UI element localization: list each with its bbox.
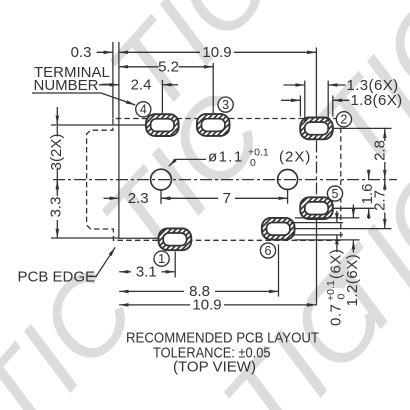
ext pad row A left <box>51 124 146 126</box>
svg-text:3.3: 3.3 <box>47 197 64 218</box>
svg-text:3: 3 <box>222 98 229 112</box>
drill hole left (2X) <box>151 169 172 190</box>
pad terminal 6 <box>262 218 295 240</box>
ext pad2 hole right <box>327 81 329 123</box>
svg-text:0.7: 0.7 <box>327 304 344 326</box>
pcb edge vertical <box>118 42 120 238</box>
dimension 7 <box>161 197 218 199</box>
ext pad2 hole left <box>304 81 306 123</box>
svg-text:NUMBER: NUMBER <box>34 77 99 94</box>
label diameter 1.1 (2X) leader <box>169 159 206 166</box>
dimension 2.7 <box>384 180 386 190</box>
svg-text:2.3: 2.3 <box>128 190 149 207</box>
ext pad2 outer right <box>332 96 334 117</box>
svg-text:PCB EDGE: PCB EDGE <box>18 269 96 286</box>
pcb edge bottom <box>119 237 159 239</box>
pad terminal 5 <box>300 197 333 219</box>
balloon terminal 6 <box>260 243 275 258</box>
ext hole1 down <box>160 191 162 204</box>
svg-text:2.4: 2.4 <box>131 77 152 94</box>
dimension 0.7 (6X) <box>336 211 338 222</box>
ext pad6 bottom right <box>295 239 360 241</box>
dimension 1.6 <box>368 170 370 180</box>
ext hole2 down <box>287 190 289 204</box>
ext pad4 center up <box>161 80 163 113</box>
dimension 3.1 <box>119 271 131 273</box>
leader terminal number <box>32 93 135 105</box>
dimension 0.3 <box>97 51 113 53</box>
dimension 10.9 top <box>119 51 200 53</box>
ext pad5 center right <box>334 207 375 209</box>
ext pad2 center right <box>334 127 392 129</box>
dimension 2.3 <box>104 197 119 199</box>
horizontal center line <box>53 179 397 181</box>
ext pad1 center down <box>174 252 176 278</box>
dimension 1.3 (6X) <box>284 84 305 86</box>
svg-text:0.3: 0.3 <box>71 44 92 61</box>
svg-text:1: 1 <box>158 252 165 266</box>
component outline (dashed) <box>87 119 341 241</box>
svg-text:(6X): (6X) <box>327 249 344 279</box>
dimension 2.4 <box>99 84 119 86</box>
dimension 8.8 <box>119 290 184 292</box>
svg-text:1.2(6X): 1.2(6X) <box>344 254 361 307</box>
svg-text:3(2X): 3(2X) <box>48 134 65 171</box>
dimension 3 (2X) <box>56 107 58 125</box>
ext pad6 hole bottom <box>291 234 344 236</box>
svg-text:ø1.1: ø1.1 <box>208 149 244 166</box>
svg-text:(2X): (2X) <box>279 149 311 166</box>
ext pad6 center down <box>278 244 280 296</box>
svg-text:10.9: 10.9 <box>202 44 231 61</box>
dimension 1.8 (6X) <box>281 99 300 101</box>
svg-text:6: 6 <box>265 244 272 258</box>
balloon terminal 3 <box>218 97 233 112</box>
ext pad6 center right <box>295 228 392 230</box>
ext pad6 hole top <box>291 222 344 224</box>
balloon terminal 5 <box>327 186 342 201</box>
ext pad5 center down <box>316 219 318 305</box>
svg-text:3.1: 3.1 <box>136 264 157 281</box>
dimension 5.2 <box>119 66 159 68</box>
balloon terminal 2 <box>336 112 351 127</box>
svg-text:4: 4 <box>140 103 147 117</box>
svg-text:7: 7 <box>223 190 231 207</box>
dimension 2.8 <box>384 129 386 141</box>
svg-text:0: 0 <box>250 157 256 169</box>
balloon terminal 1 <box>154 251 169 266</box>
balloon terminal 4 <box>136 102 151 117</box>
svg-text:5.2: 5.2 <box>158 59 179 76</box>
ext pad3 center up <box>212 63 214 113</box>
svg-text:2: 2 <box>340 113 347 127</box>
ext pad6 top right <box>295 217 360 219</box>
ext pad2 outer left <box>299 96 301 117</box>
dimension 3.3 <box>56 180 58 191</box>
svg-text:5: 5 <box>332 187 339 201</box>
pad terminal 1 <box>159 228 192 250</box>
ext pad2 center up <box>315 48 317 117</box>
dimension 1.2 (6X) <box>352 205 354 218</box>
drill hole right (2X) <box>278 170 298 190</box>
vertical center line pads 2-5 <box>316 141 318 198</box>
dimension 10.9 bottom <box>119 304 190 306</box>
pad terminal 3 <box>197 114 230 136</box>
pad terminal 4 <box>146 114 179 136</box>
svg-text:1.6: 1.6 <box>359 184 376 205</box>
component left edge extension <box>112 42 114 119</box>
pad terminal 2 <box>300 118 333 140</box>
svg-text:2.8: 2.8 <box>372 140 389 161</box>
ext pcb edge bottom left <box>51 237 119 239</box>
svg-text:1.8(6X): 1.8(6X) <box>351 92 403 109</box>
svg-text:(TOP VIEW): (TOP VIEW) <box>173 358 256 375</box>
leader pcb edge <box>89 247 116 276</box>
svg-text:10.9: 10.9 <box>192 297 221 314</box>
